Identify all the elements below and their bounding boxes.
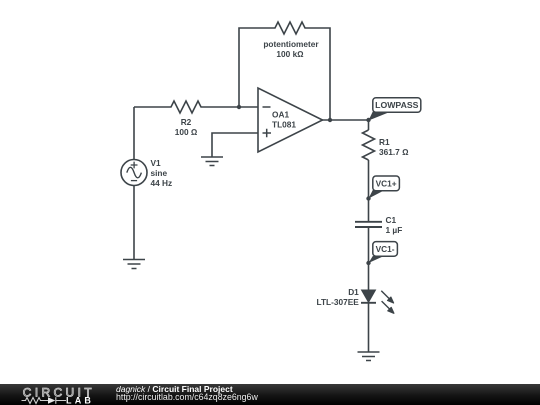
flag VC1+ (369, 176, 400, 199)
svg-text:100 Ω: 100 Ω (175, 127, 198, 137)
op-amp OA1 (258, 88, 323, 152)
footer bar (0, 384, 540, 405)
svg-text:sine: sine (151, 168, 168, 178)
wire feedback left vertical (239, 28, 260, 107)
ground below plus input (201, 157, 223, 166)
capacitor C1 plates (355, 222, 382, 227)
potentiometer P (feedback resistor zigzag) (260, 22, 320, 34)
svg-text:1 µF: 1 µF (386, 225, 403, 235)
svg-text:44 Hz: 44 Hz (151, 178, 173, 188)
ground below V1 (123, 260, 145, 269)
node junction: VC1- (366, 261, 370, 265)
wire op-amp plus input (212, 133, 258, 157)
node junction: VC1+ (366, 196, 370, 200)
LED light arrow 1 (381, 291, 389, 299)
svg-text:LTL-307EE: LTL-307EE (317, 297, 360, 307)
wire input from V1 to R2 (134, 106, 156, 108)
wire C1 to VC1- node to LED (368, 228, 370, 290)
svg-text:VC1+: VC1+ (376, 179, 397, 189)
flag VC1- (369, 242, 398, 263)
CircuitLab logo (0, 384, 100, 405)
svg-text:VC1-: VC1- (376, 244, 395, 254)
node junction: output / R1 / LOWPASS (366, 118, 370, 122)
resistor R1 (vertical zigzag) (363, 130, 375, 160)
svg-text:TL081: TL081 (272, 120, 296, 130)
node junction: feedback / output (328, 118, 332, 122)
svg-text:LOWPASS: LOWPASS (375, 100, 418, 110)
resistor R2 (156, 101, 216, 113)
footer text (116, 384, 233, 394)
svg-text:361.7 Ω: 361.7 Ω (379, 147, 409, 157)
LED light arrow 2 (382, 301, 390, 309)
wire op-amp output (322, 119, 369, 121)
svg-text:C1: C1 (386, 215, 397, 225)
svg-text:OA1: OA1 (272, 110, 289, 120)
svg-text:V1: V1 (151, 158, 162, 168)
svg-text:100 kΩ: 100 kΩ (276, 49, 304, 59)
svg-text:R2: R2 (181, 117, 192, 127)
flag LOWPASS (369, 98, 421, 121)
wire R2 to op-amp minus input (216, 106, 258, 108)
wire LED cathode down (368, 303, 370, 352)
wire R1 to VC1+ node (368, 160, 370, 221)
wire V1 top lead (133, 107, 135, 160)
wire feedback right vertical (320, 28, 330, 120)
node junction: R2 / feedback (237, 105, 241, 109)
voltage source V1 (121, 160, 147, 186)
LED D1 body (361, 290, 394, 313)
svg-text:LAB: LAB (66, 396, 94, 405)
ground below LED (358, 352, 380, 361)
svg-text:D1: D1 (348, 287, 359, 297)
wire V1 bottom lead (133, 185, 135, 259)
svg-text:R1: R1 (379, 137, 390, 147)
wire R1 top lead (368, 120, 370, 130)
svg-text:potentiometer: potentiometer (263, 39, 319, 49)
